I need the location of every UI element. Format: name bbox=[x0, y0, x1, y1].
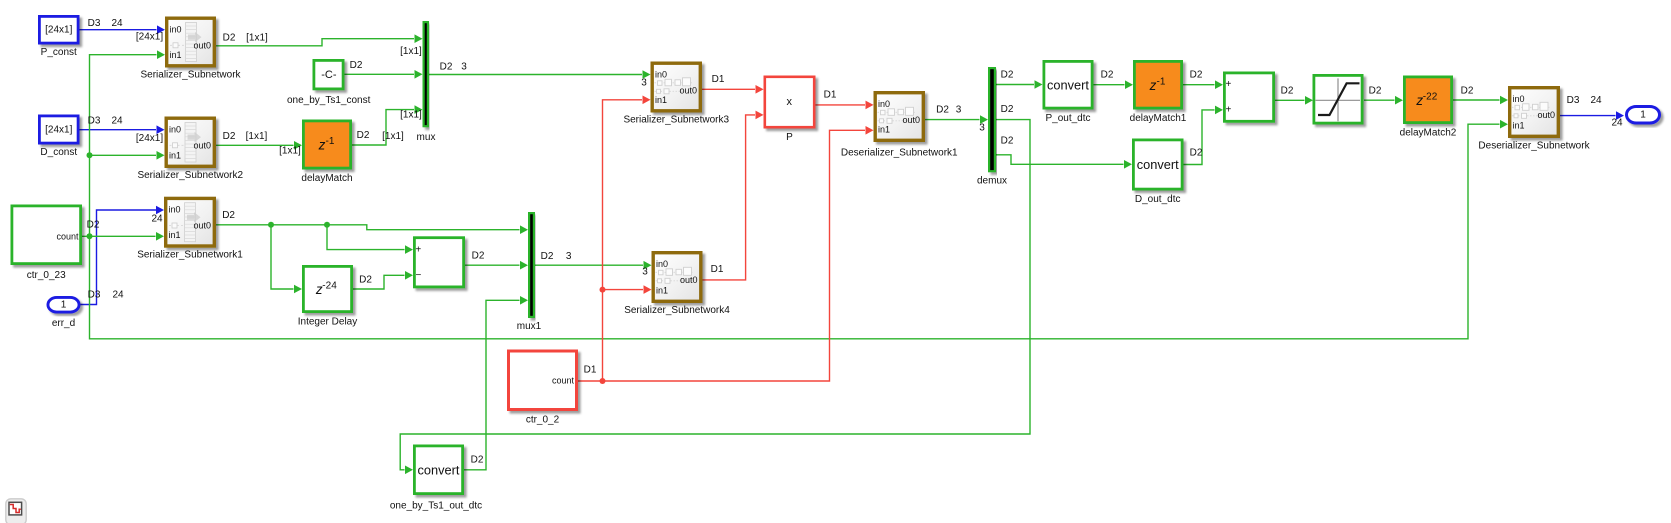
wire Sum out to mux1 in2 bbox=[465, 261, 528, 270]
label 3 at 644,82.8 bbox=[641, 77, 647, 88]
svg-text:in1: in1 bbox=[170, 50, 182, 60]
svg-text:out0: out0 bbox=[193, 221, 211, 231]
svg-text:D1: D1 bbox=[824, 90, 837, 101]
convert block P_out_dtc bbox=[1044, 61, 1092, 124]
wire Serializer_Subnetwork3 out0 to P in1 bbox=[702, 85, 764, 94]
svg-text:mux1: mux1 bbox=[517, 321, 542, 332]
svg-text:Deserializer_Subnetwork1: Deserializer_Subnetwork1 bbox=[841, 148, 958, 159]
svg-text:Serializer_Subnetwork3: Serializer_Subnetwork3 bbox=[623, 115, 729, 126]
svg-text:D2: D2 bbox=[1190, 70, 1203, 81]
label D1 at 718,79.5 bbox=[712, 74, 725, 85]
wire demux out1 to P_out_dtc bbox=[996, 80, 1043, 89]
constant block D_const bbox=[39, 116, 78, 158]
svg-text:convert: convert bbox=[1047, 77, 1089, 92]
svg-text:3: 3 bbox=[642, 267, 648, 278]
label 24 at 117,121 bbox=[111, 116, 123, 127]
svg-text:−: − bbox=[415, 270, 421, 281]
svg-text:-1: -1 bbox=[1157, 76, 1166, 87]
wire Serializer_Subnetwork out0 to mux in1 bbox=[216, 34, 423, 45]
wire one_by_Ts1_out_dtc to mux1 in3 bbox=[464, 296, 528, 470]
svg-text:D2: D2 bbox=[1190, 148, 1203, 159]
subsystem Serializer_Subnetwork4 bbox=[624, 253, 730, 316]
svg-text:+: + bbox=[1225, 104, 1231, 115]
svg-text:3: 3 bbox=[641, 77, 647, 88]
svg-text:out0: out0 bbox=[679, 85, 697, 95]
label 24 at 157,219 bbox=[151, 214, 163, 225]
svg-text:D2: D2 bbox=[1101, 70, 1114, 81]
svg-text:D2: D2 bbox=[223, 33, 236, 44]
svg-text:one_by_Ts1_const: one_by_Ts1_const bbox=[287, 95, 371, 106]
product block P bbox=[765, 77, 814, 143]
delay block Integer Delay bbox=[298, 266, 357, 327]
wire demux out2 to one_by_Ts1_out_dtc bbox=[400, 120, 1030, 475]
svg-text:in0: in0 bbox=[656, 259, 668, 269]
label D1 at 590,370 bbox=[584, 365, 597, 376]
svg-text:[1x1]: [1x1] bbox=[400, 46, 422, 57]
label [24x1] at 149.5,37 bbox=[136, 32, 163, 43]
svg-text:out0: out0 bbox=[680, 275, 698, 285]
subsystem Serializer_Subnetwork3 bbox=[623, 63, 729, 125]
svg-text:in1: in1 bbox=[878, 125, 890, 135]
svg-text:delayMatch2: delayMatch2 bbox=[1400, 128, 1457, 139]
label D2 at 1375,91 bbox=[1369, 86, 1382, 97]
svg-text:24: 24 bbox=[151, 214, 163, 225]
label D2 at 228.6,215.7 bbox=[222, 210, 235, 221]
label D2 at 547,256.3 bbox=[541, 251, 554, 262]
label [1x1] at 393,136.3 bbox=[382, 131, 404, 142]
svg-text:in0: in0 bbox=[170, 25, 182, 35]
sum block Sum2 bbox=[1224, 73, 1273, 121]
convert block D_out_dtc bbox=[1133, 140, 1182, 205]
svg-text:-1: -1 bbox=[326, 136, 335, 147]
label [1x1] at 411,51.5 bbox=[400, 46, 422, 57]
subsystem Deserializer_Subnetwork bbox=[1478, 88, 1590, 152]
wire Deserializer_Subnetwork out0 to outport 1 bbox=[1560, 111, 1624, 120]
mux block bbox=[417, 22, 436, 143]
svg-text:Serializer_Subnetwork2: Serializer_Subnetwork2 bbox=[137, 170, 243, 181]
svg-text:D2: D2 bbox=[359, 275, 372, 286]
label [1x1] at 257,38 bbox=[246, 33, 268, 44]
svg-text:mux: mux bbox=[417, 132, 436, 143]
label 3 at 958.5,110.2 bbox=[956, 105, 962, 116]
mux1 block bbox=[517, 213, 542, 332]
label D2 at 942.5,110.2 bbox=[936, 105, 949, 116]
svg-text:x: x bbox=[787, 96, 793, 108]
svg-text:24: 24 bbox=[1611, 117, 1623, 128]
wire count net ctr_0_23 trunk bbox=[82, 50, 1508, 338]
wire P out to Deserializer_Subnetwork1 in0 bbox=[816, 101, 874, 110]
svg-text:D2: D2 bbox=[223, 131, 236, 142]
label D2 at 1007,109.3 bbox=[1001, 104, 1014, 115]
label D1 at 717,269.5 bbox=[711, 264, 724, 275]
wire Saturation to delayMatch2 bbox=[1364, 96, 1403, 105]
wire Sum2 to Saturation bbox=[1275, 96, 1313, 105]
svg-text:D_out_dtc: D_out_dtc bbox=[1135, 194, 1181, 205]
svg-text:D_const: D_const bbox=[40, 147, 77, 158]
delay block delayMatch2 bbox=[1400, 77, 1457, 139]
label D3 at 1573,100.5 bbox=[1567, 95, 1580, 106]
svg-text:count: count bbox=[552, 376, 575, 386]
svg-text:D2: D2 bbox=[1001, 104, 1014, 115]
svg-text:D1: D1 bbox=[712, 74, 725, 85]
svg-text:D3: D3 bbox=[88, 116, 101, 127]
svg-text:1: 1 bbox=[61, 299, 67, 310]
svg-text:3: 3 bbox=[956, 105, 962, 116]
svg-text:z: z bbox=[318, 138, 326, 153]
label 24 at 1596,100.5 bbox=[1590, 95, 1602, 106]
svg-text:[24x1]: [24x1] bbox=[136, 32, 163, 43]
wire D_out_dtc to Sum2 plus2 bbox=[1184, 106, 1224, 165]
svg-text:in1: in1 bbox=[655, 95, 667, 105]
label D2 at 478,255.8 bbox=[472, 250, 485, 261]
label [1x1] at 256.5,136.3 bbox=[246, 131, 268, 142]
subsystem Serializer_Subnetwork bbox=[140, 18, 241, 80]
label D2 at 229,136.3 bbox=[223, 131, 236, 142]
wire Serializer_Subnetwork2 out0 to delayMatch bbox=[216, 141, 302, 150]
subsystem Serializer_Subnetwork2 bbox=[137, 118, 243, 181]
svg-text:D1: D1 bbox=[584, 365, 597, 376]
svg-text:D3: D3 bbox=[88, 18, 101, 29]
svg-text:3: 3 bbox=[566, 251, 572, 262]
svg-text:24: 24 bbox=[112, 290, 124, 301]
junction SS1 out at x271 bbox=[268, 222, 274, 228]
svg-text:[1x1]: [1x1] bbox=[400, 110, 422, 121]
svg-text:24: 24 bbox=[111, 18, 123, 29]
svg-text:-24: -24 bbox=[322, 281, 337, 292]
wire D_const to Serializer_Subnetwork2 in0 bbox=[80, 125, 165, 134]
wire P_const to Serializer_Subnetwork in0 bbox=[80, 25, 166, 34]
label D2 at 1287,91 bbox=[1281, 86, 1294, 97]
label D2 at 477,460 bbox=[471, 455, 484, 466]
junction ctr_0_2 net at Serializer_Subnetwork4 in1 bbox=[600, 287, 606, 293]
sample-time legend badge bbox=[6, 499, 26, 523]
label D2 at 365.5,280 bbox=[359, 275, 372, 286]
label D2 at 1196,153 bbox=[1190, 148, 1203, 159]
svg-text:out0: out0 bbox=[193, 40, 211, 50]
svg-text:D2: D2 bbox=[350, 60, 363, 71]
svg-text:in0: in0 bbox=[1513, 94, 1525, 104]
counter block ctr_0_23 bbox=[12, 206, 81, 281]
svg-text:D3: D3 bbox=[1567, 95, 1580, 106]
label 3 at 568.6,256.5 bbox=[566, 251, 572, 262]
svg-text:z: z bbox=[1149, 78, 1157, 93]
label D2 at 229,38 bbox=[223, 33, 236, 44]
wire err_d to Serializer_Subnetwork1 in0 bbox=[81, 206, 165, 305]
label D2 at 93,225 bbox=[87, 220, 100, 231]
svg-text:D3: D3 bbox=[88, 290, 101, 301]
svg-text:count: count bbox=[56, 231, 79, 241]
wire delayMatch1 to Sum2 plus1 bbox=[1183, 80, 1223, 89]
svg-text:in1: in1 bbox=[169, 151, 181, 161]
delay block delayMatch bbox=[301, 121, 352, 184]
svg-text:D2: D2 bbox=[357, 130, 370, 141]
label D3 at 94,23.5 bbox=[88, 18, 101, 29]
svg-text:convert: convert bbox=[1137, 157, 1179, 172]
svg-text:[24x1]: [24x1] bbox=[45, 125, 72, 136]
svg-text:P: P bbox=[786, 132, 793, 143]
svg-text:in0: in0 bbox=[655, 70, 667, 80]
svg-text:Serializer_Subnetwork4: Serializer_Subnetwork4 bbox=[624, 305, 730, 316]
wire one_by_Ts1_const to mux in2 bbox=[344, 70, 423, 79]
svg-text:in0: in0 bbox=[169, 125, 181, 135]
svg-text:D2: D2 bbox=[936, 105, 949, 116]
svg-text:Serializer_Subnetwork1: Serializer_Subnetwork1 bbox=[137, 250, 243, 261]
label D3 at 94,121 bbox=[88, 116, 101, 127]
wire mux out to Serializer_Subnetwork3 in0 bbox=[429, 70, 651, 79]
svg-text:P_const: P_const bbox=[41, 47, 77, 58]
label 3 at 645,272.2 bbox=[642, 267, 648, 278]
label 3 at 464,67 bbox=[461, 62, 467, 73]
svg-text:convert: convert bbox=[418, 463, 460, 478]
svg-text:+: + bbox=[415, 245, 421, 256]
svg-text:D2: D2 bbox=[472, 250, 485, 261]
sum block Sum1 bbox=[414, 238, 463, 287]
svg-text:D2: D2 bbox=[440, 62, 453, 73]
svg-text:[1x1]: [1x1] bbox=[279, 146, 301, 157]
wire mux1 out to Serializer_Subnetwork4 in0 bbox=[535, 261, 652, 270]
label 3 at 982,127.8 bbox=[979, 122, 985, 133]
svg-text:in1: in1 bbox=[656, 286, 668, 296]
label D2 at 1107,75 bbox=[1101, 70, 1114, 81]
delay block delayMatch1 bbox=[1130, 61, 1187, 124]
wire Deserializer_Subnetwork1 out0 to demux bbox=[925, 115, 988, 124]
svg-text:D2: D2 bbox=[1001, 136, 1014, 147]
label [24x1] at 149.5,138.6 bbox=[136, 133, 163, 144]
convert block one_by_Ts1_out_dtc bbox=[390, 446, 482, 512]
wire Integer Delay to Sum minus input bbox=[353, 271, 413, 289]
label D3 at 94,295 bbox=[88, 290, 101, 301]
wire branch to Integer Delay bbox=[271, 225, 302, 293]
svg-text:demux: demux bbox=[977, 176, 1007, 187]
svg-text:[24x1]: [24x1] bbox=[45, 25, 72, 36]
subsystem Deserializer_Subnetwork1 bbox=[841, 93, 958, 159]
svg-text:3: 3 bbox=[979, 122, 985, 133]
wire Serializer_Subnetwork1 out0 to mux1 in1 bbox=[216, 225, 528, 234]
label D2 at 1007,141 bbox=[1001, 136, 1014, 147]
svg-text:D2: D2 bbox=[1001, 69, 1014, 80]
svg-text:delayMatch: delayMatch bbox=[301, 173, 352, 184]
svg-text:in0: in0 bbox=[169, 205, 181, 215]
label 24 at 1617,122.9 bbox=[1611, 117, 1623, 128]
junction SS1 out at x327 bbox=[324, 222, 330, 228]
svg-text:out0: out0 bbox=[1537, 110, 1555, 120]
svg-text:one_by_Ts1_out_dtc: one_by_Ts1_out_dtc bbox=[390, 501, 482, 512]
svg-text:ctr_0_23: ctr_0_23 bbox=[27, 270, 66, 281]
svg-text:Integer Delay: Integer Delay bbox=[298, 317, 357, 328]
label D2 at 1007,74.8 bbox=[1001, 69, 1014, 80]
constant block P_const bbox=[39, 16, 78, 58]
svg-text:[1x1]: [1x1] bbox=[382, 131, 404, 142]
label D2 at 363,135.5 bbox=[357, 130, 370, 141]
label D1 at 830,95 bbox=[824, 90, 837, 101]
wire delayMatch2 to Deserializer_Subnetwork in0 bbox=[1453, 96, 1508, 105]
label D2 at 1196,75 bbox=[1190, 70, 1203, 81]
label D2 at 356,65.5 bbox=[350, 60, 363, 71]
svg-text:out0: out0 bbox=[902, 115, 920, 125]
svg-text:in0: in0 bbox=[878, 99, 890, 109]
junction count net at ctr_0_23 output bbox=[87, 233, 93, 239]
svg-text:D2: D2 bbox=[1461, 86, 1474, 97]
inport err_d bbox=[48, 297, 79, 329]
wire delayMatch to mux in3 bbox=[352, 105, 423, 145]
svg-text:D2: D2 bbox=[1281, 86, 1294, 97]
svg-text:D2: D2 bbox=[87, 220, 100, 231]
svg-text:err_d: err_d bbox=[52, 318, 75, 329]
svg-text:[1x1]: [1x1] bbox=[246, 131, 268, 142]
constant block one_by_Ts1_const bbox=[287, 60, 371, 106]
wire branch ctr_0_2 to Serializer_Subnetwork4 in1 and Serializer_Subnetwork3 in1 bbox=[603, 96, 652, 382]
wire P_out_dtc to delayMatch1 bbox=[1094, 80, 1134, 89]
svg-text:in1: in1 bbox=[1513, 121, 1525, 131]
svg-text:D2: D2 bbox=[471, 455, 484, 466]
label 24 at 117,23.5 bbox=[111, 18, 123, 29]
wire Serializer_Subnetwork4 out0 to P in2 bbox=[703, 111, 764, 280]
label D2 at 1467,91 bbox=[1461, 86, 1474, 97]
outport 1 bbox=[1627, 107, 1660, 124]
subsystem Serializer_Subnetwork1 bbox=[137, 198, 243, 260]
svg-text:24: 24 bbox=[1590, 95, 1602, 106]
svg-text:[24x1]: [24x1] bbox=[136, 133, 163, 144]
wire demux out3 to D_out_dtc bbox=[996, 155, 1132, 169]
svg-text:[1x1]: [1x1] bbox=[246, 33, 268, 44]
wire ctr_0_2 to Deserializer_Subnetwork1 in1 bbox=[577, 126, 874, 381]
svg-text:P_out_dtc: P_out_dtc bbox=[1045, 113, 1090, 124]
svg-text:Serializer_Subnetwork: Serializer_Subnetwork bbox=[140, 70, 241, 81]
svg-text:24: 24 bbox=[111, 116, 123, 127]
counter block ctr_0_2 bbox=[509, 351, 577, 426]
wire branch to Sum plus input bbox=[327, 225, 413, 254]
saturation block bbox=[1314, 75, 1362, 123]
svg-text:in1: in1 bbox=[169, 230, 181, 240]
label 24 at 118,295 bbox=[112, 290, 124, 301]
svg-text:delayMatch1: delayMatch1 bbox=[1130, 113, 1187, 124]
junction count net at Serializer_Subnetwork2 in1 bbox=[87, 152, 93, 158]
label D2 at 446,67 bbox=[440, 62, 453, 73]
svg-text:D2: D2 bbox=[222, 210, 235, 221]
svg-text:1: 1 bbox=[1640, 110, 1646, 121]
demux block bbox=[977, 68, 1007, 186]
svg-text:+: + bbox=[1225, 79, 1231, 90]
label [1x1] at 290,151 bbox=[279, 146, 301, 157]
label [1x1] at 411,115 bbox=[400, 110, 422, 121]
svg-text:out0: out0 bbox=[193, 140, 211, 150]
svg-text:3: 3 bbox=[461, 62, 467, 73]
svg-text:ctr_0_2: ctr_0_2 bbox=[526, 415, 560, 426]
svg-text:Deserializer_Subnetwork: Deserializer_Subnetwork bbox=[1478, 141, 1590, 152]
junction ctr_0_2 net at x602 bbox=[600, 378, 606, 384]
svg-text:D2: D2 bbox=[541, 251, 554, 262]
svg-text:D2: D2 bbox=[1369, 86, 1382, 97]
svg-text:-C-: -C- bbox=[321, 69, 337, 81]
svg-text:-22: -22 bbox=[1423, 91, 1438, 102]
svg-text:D1: D1 bbox=[711, 264, 724, 275]
